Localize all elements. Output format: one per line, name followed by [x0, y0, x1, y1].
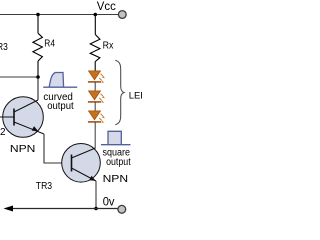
svg-text:R3: R3 [0, 42, 8, 53]
LED D2 [88, 91, 105, 103]
curved output waveform [43, 73, 77, 88]
wire LED D3 to TR3 collector [94, 122, 96, 148]
wire LED D1 to D2 [94, 82, 96, 91]
resistor Rx [90, 15, 100, 71]
transistor TR2 [0, 77, 44, 137]
wire LED D2 to D3 [94, 102, 96, 111]
LED D1 [88, 71, 105, 83]
wire TR3 emitter to 0v rail [95, 181, 97, 209]
junction dot node below R4 [36, 75, 40, 79]
svg-text:Vcc: Vcc [97, 0, 116, 13]
brace grouping LEDs [115, 60, 124, 124]
svg-text:Rx: Rx [103, 41, 114, 52]
svg-text:NPN: NPN [10, 144, 36, 155]
wire Vcc top rail [0, 14, 118, 16]
0v terminal [118, 205, 126, 213]
wire 0v bottom rail [6, 208, 118, 210]
wire TR2 emitter to TR3 base [44, 134, 72, 163]
node A junction dot (top of R4) [36, 13, 40, 17]
svg-text:output: output [106, 157, 131, 168]
svg-text:output: output [47, 101, 74, 112]
svg-text:2: 2 [0, 127, 6, 138]
transistor TR3 [62, 144, 101, 183]
svg-text:TR3: TR3 [36, 181, 53, 192]
resistor R4 [33, 15, 43, 78]
svg-text:R4: R4 [44, 39, 55, 50]
LED D3 [88, 111, 105, 123]
arrowhead left end of 0v rail [4, 206, 14, 212]
wire node below R4 [0, 76, 38, 78]
Vcc terminal [118, 11, 126, 19]
svg-text:0v: 0v [103, 195, 115, 209]
svg-text:NPN: NPN [103, 174, 129, 185]
svg-text:LED: LED [129, 91, 142, 102]
square output waveform [101, 131, 131, 144]
junction dot on 0v rail [94, 207, 98, 211]
node B junction dot (top of Rx) [94, 13, 98, 17]
